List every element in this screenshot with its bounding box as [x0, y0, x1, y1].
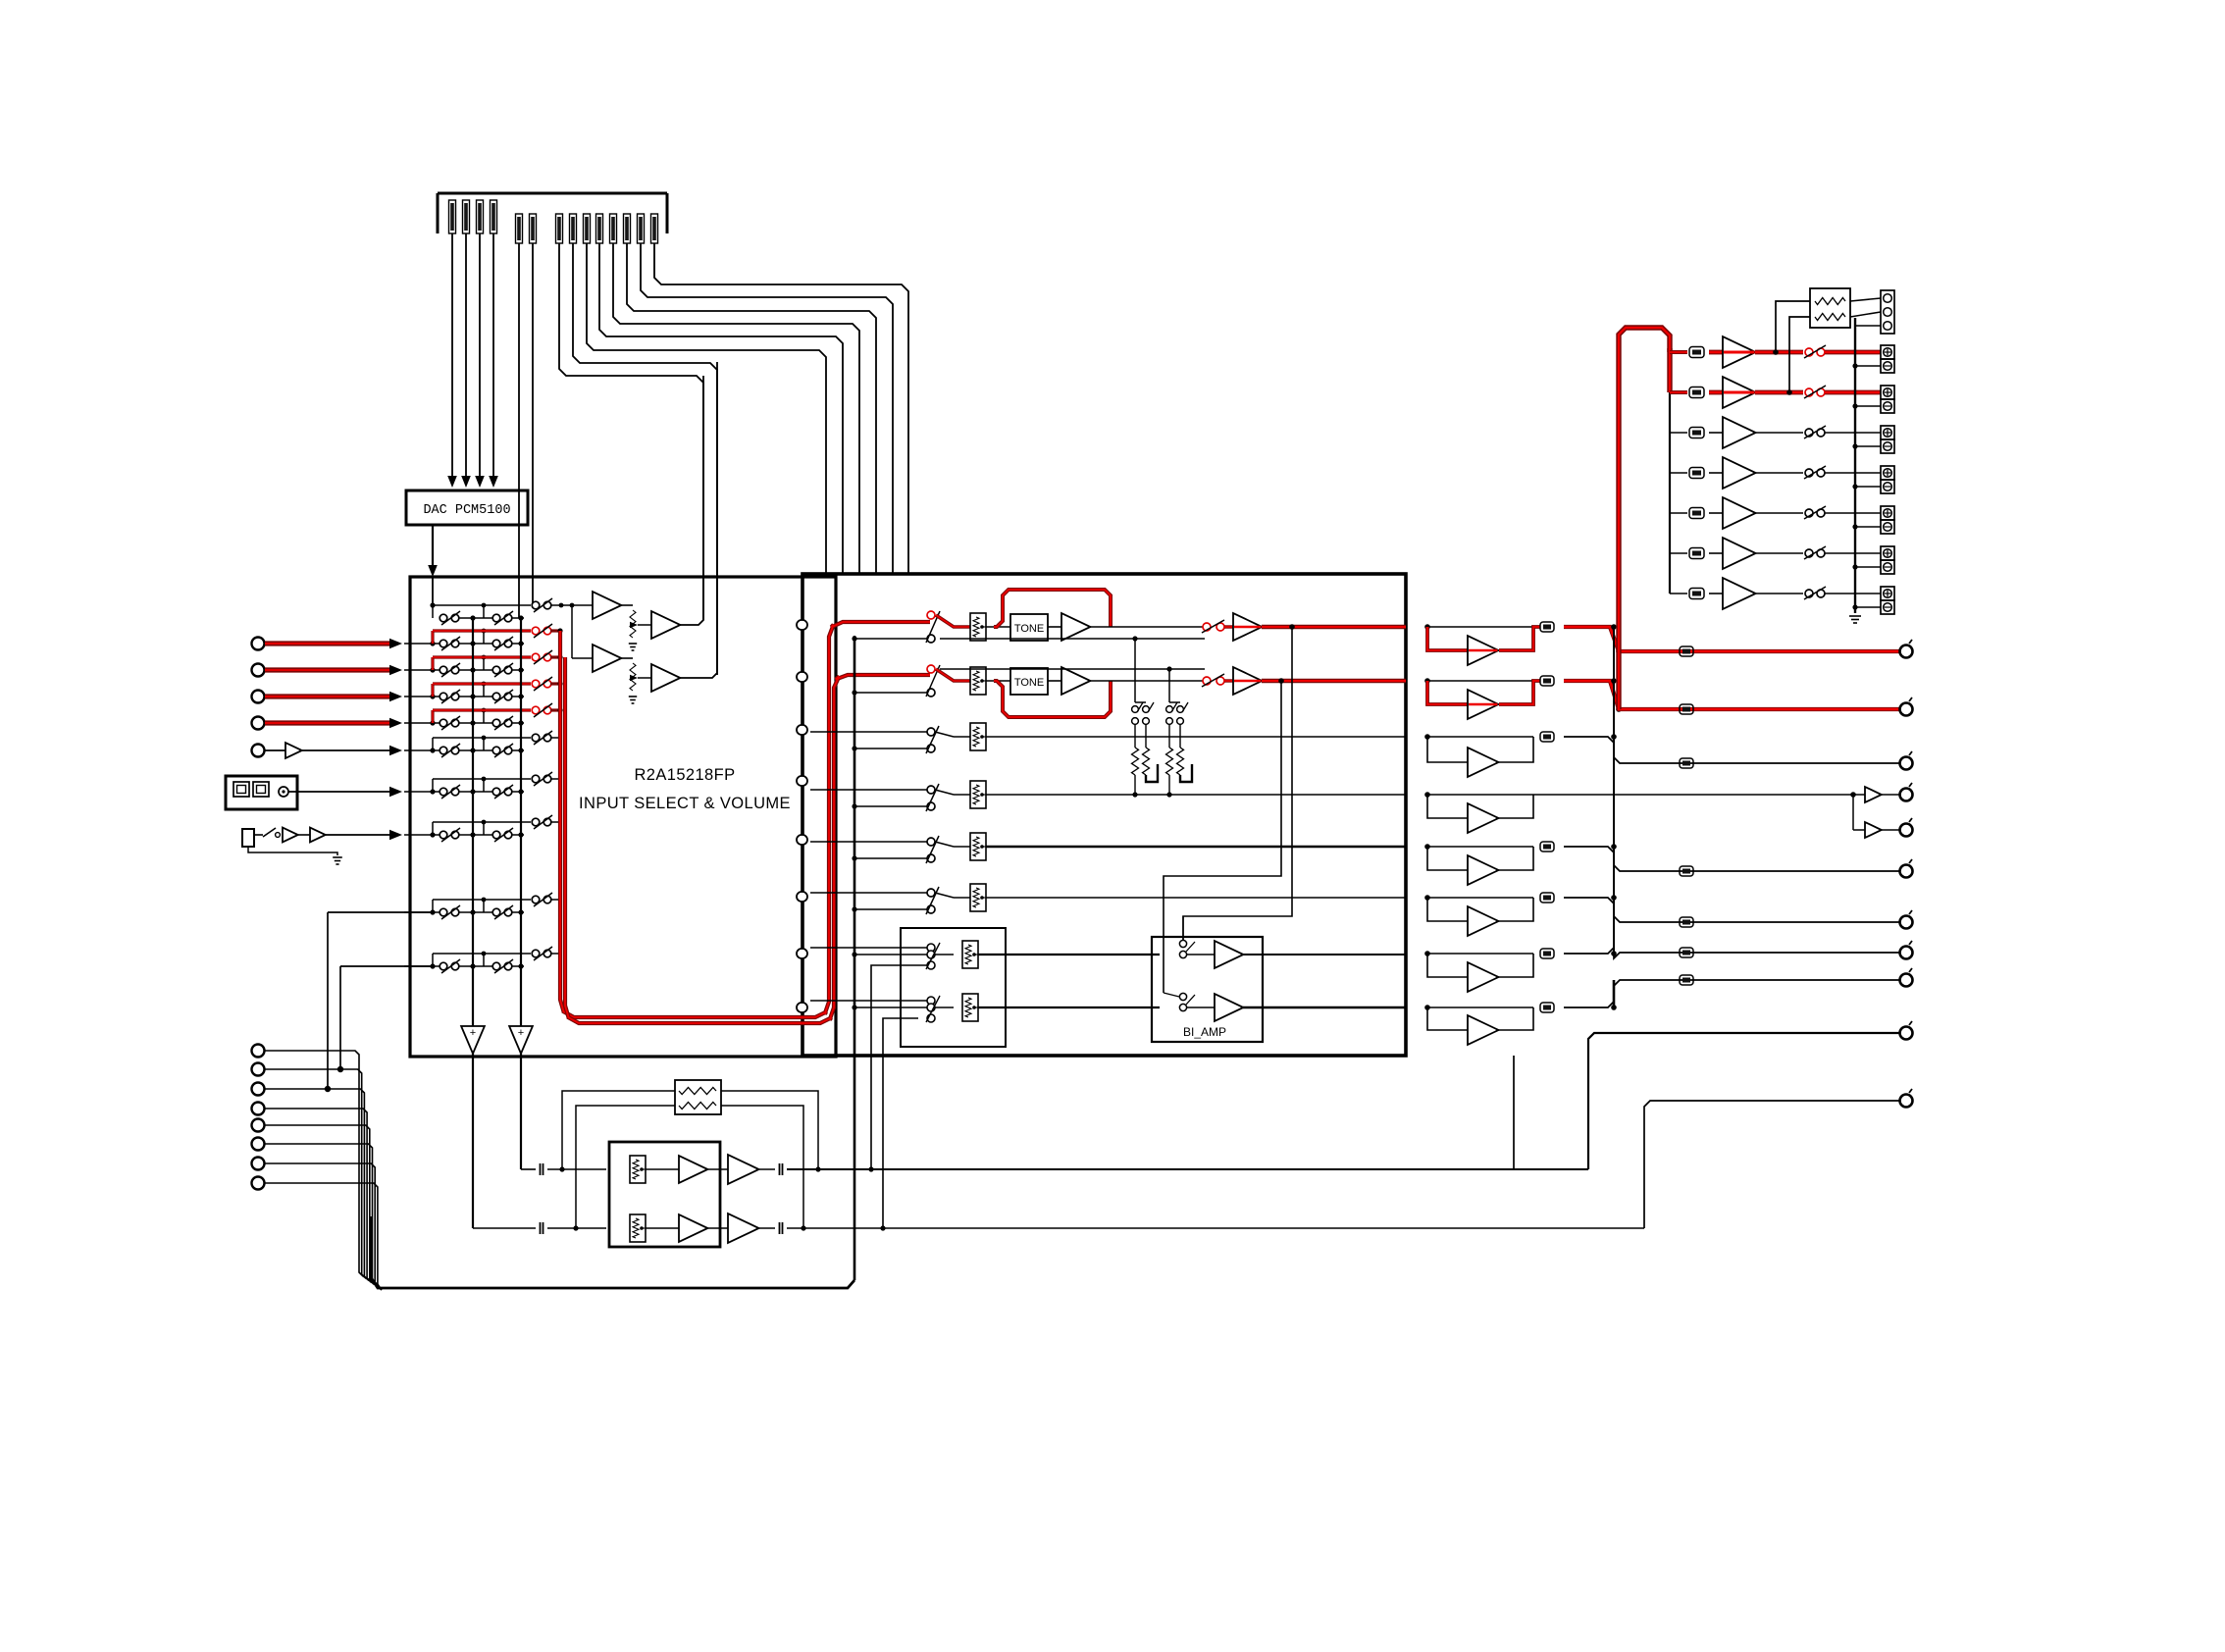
svg-text:R2A15218FP: R2A15218FP	[634, 766, 735, 784]
svg-text:+: +	[470, 1027, 476, 1039]
svg-text:+: +	[518, 1027, 524, 1039]
svg-text:BI_AMP: BI_AMP	[1183, 1025, 1226, 1039]
svg-text:DAC PCM5100: DAC PCM5100	[423, 503, 510, 518]
svg-text:TONE: TONE	[1014, 677, 1044, 689]
svg-text:TONE: TONE	[1014, 623, 1044, 635]
svg-text:INPUT SELECT & VOLUME: INPUT SELECT & VOLUME	[579, 795, 791, 812]
